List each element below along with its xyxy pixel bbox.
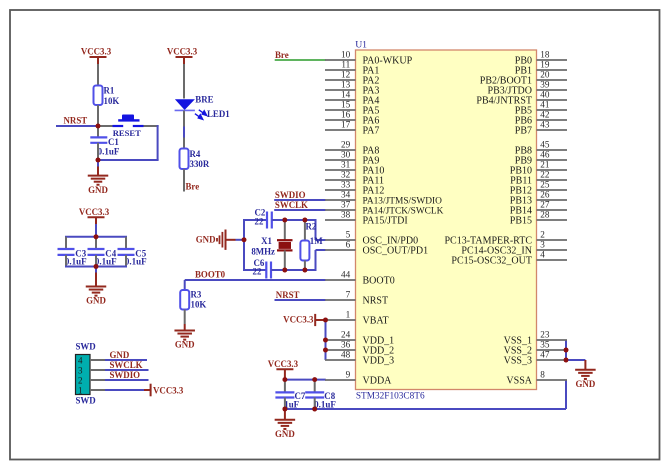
svg-text:GND: GND (576, 379, 596, 389)
wire GND (SWD) (105, 359, 147, 361)
svg-text:37: 37 (341, 200, 351, 210)
svg-text:SWD: SWD (76, 342, 96, 352)
svg-text:VDDA: VDDA (363, 375, 393, 386)
svg-text:VCC3.3: VCC3.3 (167, 47, 198, 57)
svg-text:13: 13 (341, 80, 351, 90)
svg-text:BOOT0: BOOT0 (363, 275, 395, 286)
svg-text:SWDIO: SWDIO (275, 190, 306, 200)
node VBAT junction (top) (323, 318, 328, 323)
wire decoupling top rail (65, 237, 127, 249)
wire NRST node to switch (98, 125, 113, 127)
svg-text:47: 47 (540, 350, 550, 360)
svg-text:22: 22 (253, 266, 262, 276)
svg-text:35: 35 (540, 340, 550, 350)
svg-text:12: 12 (341, 70, 351, 80)
wire VSS to ground (566, 359, 585, 361)
svg-text:45: 45 (540, 140, 550, 150)
svg-text:R4: R4 (190, 149, 201, 159)
wire SWDIO (SWD) (105, 379, 149, 381)
svg-text:46: 46 (540, 150, 550, 160)
capacitor C3 (58, 249, 88, 267)
pin 38 PA15/JTDI (325, 210, 408, 227)
svg-text:30: 30 (341, 150, 351, 160)
wire pin1 to VCC (105, 389, 144, 391)
wire X1 bottom lead (284, 250, 286, 270)
node crystal GND junction (242, 237, 247, 242)
node R2 bottom (top) (303, 268, 308, 273)
pin 39 PB3/JTDO (488, 80, 567, 97)
wire VCC3.3 to LED (183, 64, 185, 99)
wire BOOT0 (185, 280, 326, 290)
resistor R3 (180, 290, 206, 310)
wire bottom rail right (271, 269, 317, 271)
ground GND (reset) (88, 176, 109, 195)
wire R4 to Bre (183, 169, 185, 192)
svg-text:PC15-OSC32_OUT: PC15-OSC32_OUT (451, 255, 532, 266)
node VSS_2 junction (top) (564, 348, 569, 353)
switch RESET (113, 115, 144, 138)
node X1 top (282, 218, 287, 223)
pin 22 PB11 (510, 170, 567, 187)
node NRST junction (top) (96, 124, 101, 129)
pin 5 OSC_IN/PD0 (325, 230, 418, 247)
wire riser to OSC_OUT (316, 250, 326, 270)
wire node to C1 (97, 126, 99, 138)
wire C7 stub top (284, 380, 286, 393)
svg-text:U1: U1 (355, 40, 367, 51)
node R2 top (303, 218, 308, 223)
power VCC3.3 (SWD) (144, 384, 184, 397)
ground GND (decoupling) (86, 287, 107, 306)
svg-text:38: 38 (341, 210, 351, 220)
svg-text:VDD_3: VDD_3 (363, 355, 395, 366)
svg-text:26: 26 (540, 190, 550, 200)
node VDD_2 junction (323, 348, 328, 353)
connector SWD (76, 355, 91, 395)
node VDD_1 junction (top) (323, 338, 328, 343)
svg-text:8MHz: 8MHz (251, 246, 275, 256)
pin 1 VBAT (325, 310, 389, 327)
wire top rail right (272, 219, 317, 221)
svg-text:27: 27 (540, 200, 550, 210)
wire SWCLK (SWD) (105, 369, 149, 371)
pin 21 PB10 (510, 160, 567, 177)
node C7 bottom junction (283, 407, 288, 412)
svg-text:PA12: PA12 (363, 185, 385, 196)
svg-text:3: 3 (540, 240, 545, 250)
svg-text:7: 7 (346, 290, 351, 300)
pin 34 PA13/JTMS/SWDIO (325, 190, 442, 207)
node decoupling top (top) (94, 234, 99, 239)
svg-text:VCC3.3: VCC3.3 (283, 314, 314, 324)
svg-text:VBAT: VBAT (363, 315, 389, 326)
node decoupling bottom (top) (94, 264, 99, 269)
svg-text:SWD: SWD (76, 396, 96, 406)
svg-text:20: 20 (540, 70, 550, 80)
pin 31 PA10 (325, 160, 384, 177)
wire NRST to IC (275, 299, 326, 301)
wire NRST (56, 125, 98, 127)
svg-text:0.1uF: 0.1uF (314, 399, 336, 409)
pin 29 PA8 (325, 140, 379, 157)
pin 23 VSS_1 (504, 330, 567, 347)
node X1 bottom (282, 268, 287, 273)
wire to ground (97, 160, 99, 176)
node NRST junction (96, 124, 101, 129)
pin 35 VSS_2 (504, 340, 567, 357)
node VSS_2 junction (564, 348, 569, 353)
resistor R2 (300, 220, 323, 270)
pin 32 PA11 (325, 170, 384, 187)
wire C7 to ground (284, 409, 286, 420)
pin 17 PA7 (325, 120, 379, 137)
pin 13 PA3 (325, 80, 379, 97)
wire C8 stub top (314, 380, 316, 393)
pin 47 VSS_3 (504, 350, 567, 367)
wire VCC3.3 to R1 (97, 64, 99, 86)
wire VDDA (285, 379, 326, 381)
svg-text:9: 9 (346, 370, 351, 380)
svg-text:VCC3.3: VCC3.3 (81, 47, 112, 57)
wire C8 stub bottom (314, 398, 316, 410)
pin 46 PB9 (515, 150, 567, 167)
pin 1 (SWD) (78, 386, 105, 396)
wire reset loop right (157, 125, 159, 160)
pin 26 PB13 (510, 190, 567, 207)
svg-text:25: 25 (540, 180, 550, 190)
svg-text:VCC3.3: VCC3.3 (153, 385, 184, 395)
svg-text:R3: R3 (191, 290, 202, 300)
svg-text:0.1uF: 0.1uF (98, 146, 120, 156)
pin 28 PB15 (510, 210, 567, 227)
svg-text:19: 19 (540, 60, 550, 70)
svg-text:VCC3.3: VCC3.3 (79, 207, 110, 217)
capacitor C8 (305, 391, 336, 409)
svg-text:18: 18 (540, 50, 550, 60)
svg-text:4: 4 (540, 250, 545, 260)
svg-text:PB15: PB15 (510, 215, 532, 226)
svg-text:23: 23 (540, 330, 550, 340)
wire SWDIO (274, 199, 325, 201)
pin 2 PC13-TAMPER-RTC (445, 230, 568, 247)
pin 11 PA1 (325, 60, 379, 77)
svg-text:VSSA: VSSA (506, 375, 532, 386)
wire ground stick (VSS) (584, 360, 586, 370)
svg-text:5: 5 (346, 230, 351, 240)
node bottom rail junction (94, 264, 99, 269)
IC U1 body (356, 50, 537, 390)
svg-text:40: 40 (540, 90, 550, 100)
svg-text:GND: GND (110, 350, 130, 360)
pin 30 PA9 (325, 150, 379, 167)
node X1 bottom (top) (282, 268, 287, 273)
svg-text:29: 29 (341, 140, 351, 150)
capacitor C4 (88, 249, 118, 267)
svg-text:4: 4 (78, 356, 83, 366)
svg-text:39: 39 (540, 80, 550, 90)
node top rail junction (94, 234, 99, 239)
pin 18 PB0 (515, 50, 567, 67)
svg-text:2: 2 (540, 230, 545, 240)
svg-text:PA7: PA7 (363, 125, 380, 136)
pin 15 PA5 (325, 100, 379, 117)
svg-text:GND: GND (88, 185, 108, 195)
wire crystal GND stub (226, 239, 245, 241)
pin 27 PB14 (510, 200, 567, 217)
pin 40 PB4/JNTRST (476, 90, 567, 107)
svg-text:33: 33 (341, 180, 351, 190)
wire VSS bus (565, 340, 567, 360)
node C8 bottom junction (312, 407, 317, 412)
pin 6 OSC_OUT/PD1 (325, 240, 428, 257)
node C8 bottom (top) (312, 407, 317, 412)
svg-text:3: 3 (78, 366, 83, 376)
svg-text:PA15/JTDI: PA15/JTDI (363, 215, 408, 226)
resistor R4 (180, 149, 210, 170)
node C8 top junction (312, 377, 317, 382)
pin 25 PB12 (510, 180, 567, 197)
ground GND (crystal) (196, 230, 226, 250)
power VCC3.3 (reset pull-up) (81, 47, 112, 65)
node VBAT junction (323, 318, 328, 323)
svg-text:48: 48 (341, 350, 351, 360)
wire R3 to ground (184, 310, 186, 331)
ground GND (C7 C8) (275, 420, 296, 439)
resistor R1 (94, 86, 120, 107)
pin 45 PB8 (515, 140, 567, 157)
svg-text:44: 44 (341, 270, 351, 280)
pin 14 PA4 (325, 90, 379, 107)
node R2 bottom (303, 268, 308, 273)
svg-text:1M: 1M (310, 236, 323, 246)
crystal X1 (251, 236, 292, 256)
wire crystal left rail (243, 219, 245, 271)
wire R1 to NRST node (97, 105, 99, 126)
svg-text:VSS_3: VSS_3 (504, 355, 532, 366)
svg-text:VCC3.3: VCC3.3 (268, 359, 299, 369)
wire decoupling bottom rail (65, 255, 127, 267)
wire rail to ground (95, 267, 97, 287)
node C7 top (top) (283, 377, 288, 382)
svg-text:STM32F103C8T6: STM32F103C8T6 (356, 391, 425, 401)
pin 8 VSSA (506, 370, 567, 387)
svg-text:SWCLK: SWCLK (110, 360, 143, 370)
power VCC3.3 (decoupling) (79, 207, 110, 225)
pin 24 VDD_1 (325, 330, 394, 347)
pin 10 PA0-WKUP (325, 50, 413, 67)
wire VSSA return bottom (285, 380, 566, 409)
svg-text:8: 8 (540, 370, 545, 380)
svg-text:LED1: LED1 (207, 109, 230, 119)
pin 41 PB5 (515, 100, 567, 117)
svg-text:42: 42 (540, 110, 550, 120)
capacitor C7 (275, 391, 306, 409)
pin 20 PB2/BOOT1 (480, 70, 567, 87)
svg-text:BRE: BRE (195, 95, 213, 105)
pin 19 PB1 (515, 60, 567, 77)
svg-text:36: 36 (341, 340, 351, 350)
pin 16 PA6 (325, 110, 379, 127)
svg-text:15: 15 (341, 100, 351, 110)
wire top rail left (244, 219, 267, 221)
svg-text:X1: X1 (261, 236, 272, 246)
pin 43 PB7 (515, 120, 567, 137)
node VDD_1 junction (323, 338, 328, 343)
svg-text:R1: R1 (104, 86, 115, 96)
svg-text:PA13/JTMS/SWDIO: PA13/JTMS/SWDIO (363, 196, 443, 206)
pin 9 VDDA (325, 370, 392, 387)
svg-text:24: 24 (341, 330, 351, 340)
svg-text:32: 32 (341, 170, 351, 180)
svg-text:16: 16 (341, 110, 351, 120)
svg-text:NRST: NRST (363, 295, 389, 306)
node R2 top (top) (303, 218, 308, 223)
capacitor C1 (90, 137, 120, 156)
wire riser to OSC_IN (316, 220, 326, 240)
LED LED1 (BRE) (175, 95, 230, 120)
pin 3 (SWD) (78, 366, 105, 376)
svg-text:14: 14 (341, 90, 351, 100)
node C7 bottom (top) (283, 407, 288, 412)
wire C7 stub bottom (284, 398, 286, 410)
svg-text:11: 11 (341, 60, 350, 70)
pin 2 (SWD) (78, 376, 105, 386)
power VCC3.3 (VBAT) (283, 314, 325, 326)
node C8 top (top) (312, 377, 317, 382)
ground GND (VSS) (575, 370, 596, 389)
svg-text:NRST: NRST (276, 290, 300, 300)
svg-text:Bre: Bre (275, 50, 289, 60)
svg-text:SWCLK: SWCLK (275, 200, 308, 210)
svg-text:GND: GND (196, 234, 216, 244)
svg-text:1: 1 (346, 310, 351, 320)
svg-text:0.1uF: 0.1uF (95, 256, 117, 266)
svg-text:17: 17 (341, 120, 351, 130)
svg-text:43: 43 (540, 120, 550, 130)
svg-text:OSC_OUT/PD1: OSC_OUT/PD1 (363, 245, 429, 256)
pin 7 NRST (325, 290, 388, 307)
svg-text:21: 21 (540, 160, 550, 170)
wire bottom rail left (244, 269, 266, 271)
ground GND (BOOT0) (174, 331, 195, 350)
power VCC3.3 (LED) (167, 47, 198, 65)
svg-text:22: 22 (255, 217, 264, 227)
svg-text:SWDIO: SWDIO (110, 370, 141, 380)
wire switch to loop corner (144, 125, 159, 127)
pin 48 VDD_3 (325, 350, 394, 367)
wire VCC3.3 to rail (95, 224, 97, 237)
power VCC3.3 (VDDA) (268, 359, 299, 377)
svg-text:10K: 10K (191, 300, 207, 310)
svg-text:22: 22 (540, 170, 550, 180)
wire VDD bus (325, 320, 327, 360)
svg-text:34: 34 (341, 190, 351, 200)
svg-text:0.1uF: 0.1uF (65, 256, 87, 266)
svg-text:NRST: NRST (64, 116, 88, 126)
node C7 top junction (283, 377, 288, 382)
node VSS_3 junction (top) (564, 358, 569, 363)
svg-text:PB7: PB7 (515, 125, 532, 136)
node X1 top (top) (282, 218, 287, 223)
svg-text:BOOT0: BOOT0 (195, 269, 226, 279)
svg-text:330R: 330R (190, 159, 210, 169)
capacitor C2 (255, 207, 272, 228)
svg-text:10: 10 (341, 50, 351, 60)
node C1-GND junction (top) (96, 158, 101, 163)
capacitor C6 (253, 258, 272, 279)
pin 4 PC15-OSC32_OUT (451, 250, 567, 267)
svg-text:1: 1 (78, 386, 83, 396)
node C1-GND junction (96, 158, 101, 163)
wire VCC to VDDA node (284, 376, 286, 380)
pin 37 PA14/JTCK/SWCLK (325, 200, 444, 217)
svg-text:0.1uF: 0.1uF (125, 256, 147, 266)
node crystal GND (top) (242, 237, 247, 242)
pin 42 PB6 (515, 110, 567, 127)
pin 12 PA2 (325, 70, 379, 87)
capacitor C5 (118, 249, 148, 267)
svg-text:GND: GND (175, 340, 195, 350)
node VSS_3 junction (564, 358, 569, 363)
svg-text:Bre: Bre (186, 182, 200, 192)
svg-text:R2: R2 (306, 222, 317, 232)
svg-text:2: 2 (78, 376, 83, 386)
svg-text:GND: GND (86, 296, 106, 306)
node VDD_2 junction (top) (323, 348, 328, 353)
svg-text:41: 41 (540, 100, 550, 110)
wire X1 top lead (284, 220, 286, 240)
svg-text:31: 31 (341, 160, 351, 170)
svg-text:10K: 10K (104, 96, 120, 106)
svg-text:28: 28 (540, 210, 550, 220)
svg-text:6: 6 (346, 240, 351, 250)
pin 33 PA12 (325, 180, 384, 197)
pin 4 (SWD) (78, 356, 105, 366)
wire C1 to GND node (97, 143, 99, 160)
wire Bre (green) (275, 59, 326, 61)
wire SWCLK (274, 209, 325, 211)
wire LED to R4 (183, 111, 185, 149)
wire reset loop bottom (98, 159, 159, 161)
pin 36 VDD_2 (325, 340, 394, 357)
svg-text:GND: GND (275, 429, 295, 439)
pin 3 PC14-OSC32_IN (461, 240, 567, 257)
pin 44 BOOT0 (325, 270, 395, 287)
